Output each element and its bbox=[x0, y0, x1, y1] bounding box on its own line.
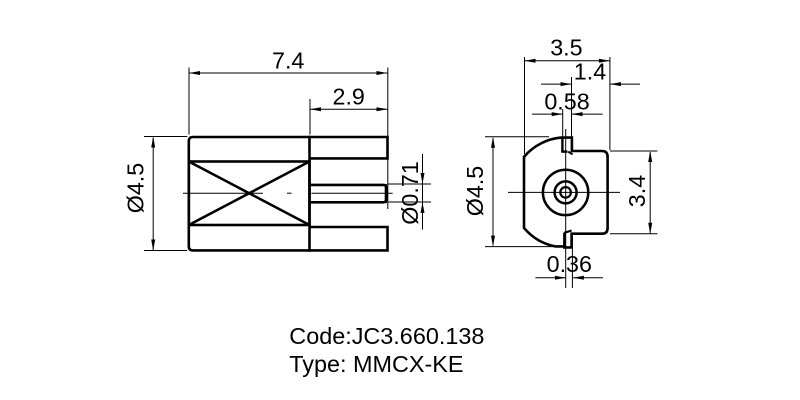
extension lines for diameter 4.5 (side view) bbox=[144, 137, 187, 251]
extension lines for dimension 3.4 bbox=[610, 151, 658, 234]
svg-text:3.4: 3.4 bbox=[624, 175, 650, 207]
svg-text:Ø4.5: Ø4.5 bbox=[123, 163, 149, 214]
vertical centerline (front view) bbox=[565, 129, 567, 288]
dimension line diameter 4.5 (front view) with arrows bbox=[491, 137, 495, 247]
dimension line 3.4 with arrows bbox=[648, 151, 652, 234]
centerline (side view axis) bbox=[183, 192, 393, 194]
bottom keying tab inner edges (front view) bbox=[564, 231, 571, 248]
connector outline (front view) with flange arcs and keying tabs bbox=[524, 138, 608, 248]
center contact pin (side view) bbox=[310, 184, 386, 203]
inner shell circle (front view) bbox=[555, 181, 577, 203]
svg-text:Type: MMCX-KE: Type: MMCX-KE bbox=[289, 351, 463, 377]
connector body right edge (side view) bbox=[308, 136, 311, 252]
extension lines for pin diameter 0.71 bbox=[388, 184, 431, 202]
svg-text:1.4: 1.4 bbox=[574, 58, 606, 84]
dimension line 0.36 with outside arrows bbox=[535, 276, 603, 280]
center pin circle (front view) bbox=[560, 187, 571, 198]
svg-text:7.4: 7.4 bbox=[272, 48, 304, 74]
dimension line 7.4 with arrows bbox=[189, 71, 388, 75]
dimension line diameter 4.5 (side view) with arrows bbox=[151, 137, 155, 251]
top mounting leg (side view) bbox=[310, 137, 388, 158]
svg-text:3.5: 3.5 bbox=[550, 35, 582, 61]
svg-text:0.36: 0.36 bbox=[547, 251, 592, 277]
extension line for dimension 0.36 at tab right edge bbox=[571, 236, 573, 288]
connector body outline (side view) bbox=[189, 137, 310, 250]
extension line left of dimension 3.5 bbox=[524, 57, 526, 154]
top keying tab inner edges (front view) bbox=[561, 138, 572, 155]
svg-text:0.58: 0.58 bbox=[544, 89, 589, 115]
extension line left of dimension 7.4 bbox=[188, 68, 190, 135]
extension line right shared by 7.4 / 2.9 / diameter 0.71 bbox=[387, 68, 389, 210]
outer shell circle (front view) bbox=[543, 170, 588, 215]
extension line for dimension 1.4 at tab right edge bbox=[571, 77, 573, 137]
extension line left of dimension 2.9 bbox=[309, 99, 311, 135]
horizontal centerline (front view) bbox=[508, 191, 620, 193]
dimension line diameter 0.71 with outside arrows bbox=[421, 154, 425, 230]
dimension line 3.5 with arrows bbox=[525, 59, 610, 63]
svg-text:Code:JC3.660.138: Code:JC3.660.138 bbox=[289, 323, 484, 349]
svg-text:2.9: 2.9 bbox=[333, 84, 365, 110]
extension line for dimension 0.58 at tab left edge bbox=[562, 109, 564, 137]
dimension line 2.9 with arrows bbox=[310, 107, 388, 111]
extension lines for diameter 4.5 (front view) bbox=[485, 137, 556, 247]
dimension line 1.4 with outside arrows bbox=[541, 82, 640, 86]
insulator block with cross (side view) bbox=[189, 162, 310, 226]
dimension line 0.58 with outside arrows bbox=[532, 112, 603, 116]
svg-text:Ø4.5: Ø4.5 bbox=[462, 166, 488, 217]
extension line right shared by 3.5 / 1.4 bbox=[609, 57, 611, 150]
bottom mounting leg (side view) bbox=[310, 227, 388, 250]
svg-text:Ø0.71: Ø0.71 bbox=[397, 161, 423, 224]
